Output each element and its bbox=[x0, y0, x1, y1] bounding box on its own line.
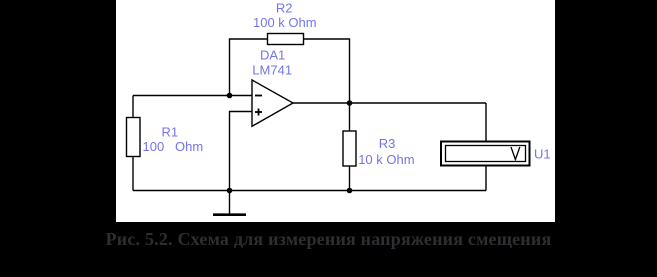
svg-text:100 k Ohm: 100 k Ohm bbox=[253, 15, 317, 30]
svg-text:R2: R2 bbox=[276, 1, 293, 16]
svg-text:10 k Ohm: 10 k Ohm bbox=[358, 152, 414, 167]
svg-text:DA1: DA1 bbox=[260, 48, 285, 63]
svg-text:100: 100 bbox=[143, 139, 165, 154]
svg-text:R3: R3 bbox=[379, 136, 396, 151]
svg-text:U1: U1 bbox=[534, 147, 551, 162]
svg-text:Ohm: Ohm bbox=[175, 139, 203, 154]
svg-text:R1: R1 bbox=[162, 125, 179, 140]
svg-text:LM741: LM741 bbox=[252, 63, 292, 78]
